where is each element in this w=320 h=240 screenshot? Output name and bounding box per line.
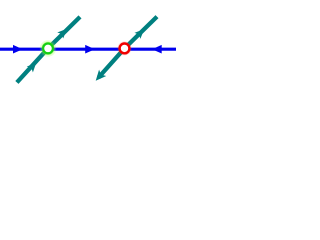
node: annihilation vertex outer glow (lime) [40, 40, 56, 56]
node: creation vertex (red ring, white core) [120, 44, 130, 54]
blue arrowhead left segment (points right) [13, 45, 23, 54]
arrowhead on worldline 1 lower segment (points up-right) [27, 62, 37, 72]
background [0, 0, 176, 99]
blue arrowhead right segment (points left) [152, 45, 162, 54]
node: annihilation vertex inner glow (lime) [41, 42, 54, 55]
arrowhead on worldline 2 upper segment (points up-right) [134, 29, 144, 39]
arrowhead at worldline 2 lower end (points down-left) [96, 70, 107, 81]
arrowhead on worldline 1 upper segment (points up-right) [57, 29, 67, 39]
spacetime pair creation/annihilation diagram [0, 0, 176, 99]
node: annihilation vertex (green ring, white core) [43, 44, 53, 54]
wire: electron worldline 2 (teal, kinked at red vertex) [99, 17, 158, 78]
wire: electron worldline 1 (teal, kinked at green vertex) [17, 17, 80, 83]
blue arrowhead middle segment (points right) [85, 45, 95, 54]
wire: photon/time axis (blue horizontal line) [0, 48, 176, 51]
node: creation vertex glow (red) [118, 42, 132, 56]
